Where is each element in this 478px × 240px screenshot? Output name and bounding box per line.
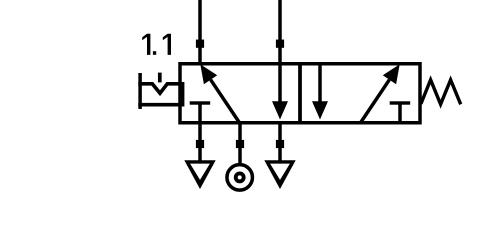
exhaust silencer at port 3 (hollow triangle) xyxy=(264,160,295,189)
right box flow arrow 1->2 (diagonal up-right) xyxy=(360,64,400,123)
left box flow arrow 1->4 (diagonal up-left) xyxy=(200,64,240,123)
valve U1.1 right position box xyxy=(300,64,420,123)
wire port 5 to exhaust (bottom left stub) xyxy=(198,123,202,163)
left box blocked port 5 (T symbol) xyxy=(190,101,211,122)
junction square on port 1 stub xyxy=(236,140,244,148)
right box flow arrow 4->5 (vertical down) xyxy=(312,66,328,120)
detent actuator left end bar xyxy=(138,73,142,109)
detent actuator right closing bar xyxy=(181,82,185,107)
wire port 1 to supply (bottom middle stub) xyxy=(238,123,242,165)
junction square on port 5 stub xyxy=(196,140,204,148)
label 1.1 xyxy=(142,34,171,55)
right box blocked port 3 (T symbol) xyxy=(390,101,411,122)
detent actuator bottom rail xyxy=(138,103,180,107)
junction square on port 4 pipe xyxy=(196,40,204,48)
left box flow arrow 2->3 (vertical down) xyxy=(272,66,288,120)
compressed air source (circle with inner dot) xyxy=(227,165,253,191)
junction square on port 2 pipe xyxy=(276,40,284,48)
junction square on port 3 stub xyxy=(276,140,284,148)
valve U1.1 left position box xyxy=(180,64,300,123)
wire to port 4 (top left vertical pipe) xyxy=(198,0,202,64)
detent actuator top rail with V notch xyxy=(138,84,180,93)
return spring (right side) xyxy=(421,80,461,105)
wire to port 2 (top right vertical pipe) xyxy=(278,0,282,64)
detent pin xyxy=(158,73,162,83)
exhaust silencer at port 5 (hollow triangle) xyxy=(184,160,215,189)
wire port 3 to exhaust (bottom right stub) xyxy=(278,123,282,163)
